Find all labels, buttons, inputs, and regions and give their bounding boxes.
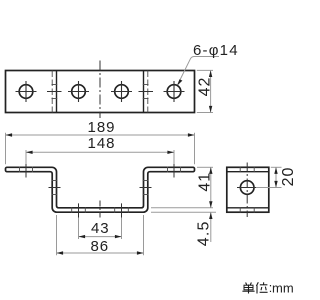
bend edge line right (wall inner face, top view) bbox=[143, 71, 145, 113]
top view plate outline bbox=[6, 71, 195, 113]
svg-text:42: 42 bbox=[197, 77, 214, 97]
side view hidden hole edges through flange and web strips bbox=[240, 167, 254, 213]
wall hole hidden edges left (top view) bbox=[52, 84, 58, 86]
centre line of part (front view) bbox=[99, 201, 101, 218]
wall hole right centre line (front view) bbox=[140, 187, 152, 189]
unit note: kanji i (rank) bbox=[256, 282, 267, 293]
flange hole 4 centre line (front view) bbox=[173, 164, 175, 178]
dimension 4.5 arrow bbox=[209, 212, 212, 219]
hole 2 (top view) bbox=[72, 85, 86, 99]
dimension 189 extension lines bbox=[6, 133, 195, 165]
svg-text:43: 43 bbox=[91, 220, 110, 237]
hole 2 crosshair bbox=[68, 81, 89, 102]
hole 1 crosshair bbox=[16, 81, 37, 102]
wall hole hidden edges right (top view) bbox=[143, 84, 149, 86]
hole 3 (top view) bbox=[115, 85, 129, 99]
wall hole left hidden edges (front view) bbox=[52, 181, 58, 195]
dimension 20 extension lines bbox=[256, 167, 282, 187]
hidden line right wall outer face (top view) bbox=[147, 71, 149, 113]
flange hole 4 hidden edges (front view) bbox=[168, 167, 181, 173]
web hole 3 centre line + 43 extension right bbox=[121, 203, 123, 217]
centre line of part (top view) bbox=[99, 61, 101, 119]
dimension 41 extension lines bbox=[151, 167, 213, 208]
leader arrowhead bbox=[177, 79, 182, 86]
svg-text:6-φ14: 6-φ14 bbox=[193, 42, 239, 59]
side view hole crosshair horizontal bbox=[237, 187, 258, 189]
flange hole 1 hidden edges (front view) bbox=[20, 167, 33, 173]
wall hole right hidden edges (front view) bbox=[143, 181, 149, 195]
side view outline bbox=[227, 167, 269, 212]
wall hole centre mark left (top view) bbox=[47, 91, 62, 93]
dimension 42 extension lines bbox=[197, 70, 213, 112]
wall hole left centre line (front view) bbox=[49, 187, 61, 189]
svg-text:41: 41 bbox=[196, 172, 213, 192]
front view left end cap bbox=[6, 167, 8, 171]
svg-text:189: 189 bbox=[87, 119, 115, 136]
svg-text:mm: mm bbox=[272, 281, 294, 296]
bend edge line left (wall inner face, top view) bbox=[56, 71, 58, 113]
hole 1 (top view) bbox=[19, 85, 33, 99]
hidden line left wall outer face (top view) bbox=[51, 71, 53, 113]
dimension 86 arrows bbox=[57, 251, 64, 254]
side view wall hole bbox=[240, 181, 254, 195]
dimension 148 extension lines bbox=[26, 150, 174, 165]
dimension 86 extension lines bbox=[57, 215, 144, 255]
svg-text:86: 86 bbox=[90, 238, 109, 255]
hole 4 (top view) bbox=[167, 85, 181, 99]
web hole 2 hidden edges (front view) bbox=[72, 207, 86, 213]
front view right end cap bbox=[193, 167, 195, 171]
dimension 43 line bbox=[79, 236, 122, 238]
web hole 2 centre line + 43 extension left bbox=[78, 203, 80, 217]
dimension 43 arrows bbox=[79, 235, 86, 238]
dimension 4.5 extension line and line below bbox=[151, 212, 216, 242]
unit note: kanji tan (unit) bbox=[242, 283, 254, 294]
svg-text:148: 148 bbox=[87, 135, 115, 152]
dimension 20 arrows bbox=[274, 167, 277, 174]
svg-text:4.5: 4.5 bbox=[195, 220, 212, 246]
flange hole 1 centre line (front view) bbox=[25, 164, 27, 178]
hole 4 crosshair bbox=[164, 81, 185, 102]
front view hat profile outer surface bbox=[7, 167, 193, 208]
svg-text:20: 20 bbox=[280, 167, 297, 187]
leader 6-phi14 bbox=[178, 57, 219, 85]
dimension 41 arrows bbox=[209, 167, 212, 174]
dimension 189 arrows bbox=[6, 133, 13, 136]
side view flange underside line bbox=[227, 171, 269, 173]
wall hole centre mark right (top view) bbox=[139, 91, 154, 93]
side view web top line bbox=[227, 207, 269, 209]
side view vertical centre chain line bbox=[246, 163, 248, 218]
front view hat profile inner surface bbox=[7, 172, 193, 213]
hole 3 crosshair bbox=[111, 81, 132, 102]
dimension 42 arrows bbox=[209, 70, 212, 77]
web hole 3 hidden edges (front view) bbox=[115, 207, 129, 213]
dimension 148 arrows bbox=[26, 151, 33, 154]
